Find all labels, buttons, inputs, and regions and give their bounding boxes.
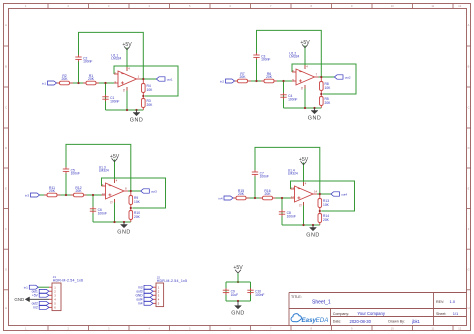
svg-text:out2: out2 — [345, 75, 351, 79]
svg-text:LM324: LM324 — [289, 54, 299, 58]
svg-text:EDA: EDA — [316, 317, 329, 324]
svg-text:LM324: LM324 — [111, 56, 121, 60]
svg-text:20K: 20K — [88, 77, 95, 81]
svg-text:100nF: 100nF — [255, 293, 264, 297]
svg-text:Easy: Easy — [302, 317, 317, 324]
svg-text:in3: in3 — [25, 193, 29, 197]
svg-text:in2: in2 — [34, 306, 38, 310]
svg-text:in4: in4 — [218, 196, 222, 200]
svg-text:100nF: 100nF — [71, 172, 80, 176]
svg-text:C: C — [5, 106, 7, 110]
svg-text:B: B — [5, 65, 7, 69]
svg-text:100nF: 100nF — [261, 58, 270, 62]
svg-text:GND: GND — [117, 230, 130, 236]
svg-text:D: D — [468, 146, 470, 150]
svg-text:H: H — [468, 306, 470, 310]
svg-text:A: A — [5, 23, 7, 27]
svg-text:in2: in2 — [220, 79, 224, 83]
svg-text:Sheet_1: Sheet_1 — [312, 300, 331, 306]
svg-text:20K: 20K — [75, 189, 82, 193]
svg-text:GND: GND — [231, 311, 244, 317]
svg-text:10K: 10K — [147, 88, 154, 92]
svg-text:G: G — [5, 268, 7, 272]
svg-text:Your Company: Your Company — [357, 311, 385, 316]
svg-text:20K: 20K — [49, 189, 56, 193]
svg-text:in1: in1 — [42, 81, 46, 85]
svg-text:HDR-M-2.54_1x5: HDR-M-2.54_1x5 — [157, 279, 187, 283]
svg-text:REV:: REV: — [436, 300, 444, 304]
svg-text:TITLE:: TITLE: — [291, 295, 302, 299]
svg-text:jbk1: jbk1 — [411, 319, 420, 324]
svg-text:Company:: Company: — [333, 312, 349, 316]
svg-text:20K: 20K — [323, 218, 330, 222]
svg-text:10K: 10K — [325, 86, 332, 90]
svg-text:100nF: 100nF — [260, 175, 269, 179]
svg-text:+5V: +5V — [233, 265, 243, 271]
svg-text:HDR-M-2.54_1x6: HDR-M-2.54_1x6 — [53, 278, 83, 282]
svg-text:10K: 10K — [134, 200, 141, 204]
svg-text:100nF: 100nF — [110, 100, 119, 104]
svg-text:in4: in4 — [138, 302, 142, 306]
svg-text:Sheet:: Sheet: — [436, 312, 446, 316]
svg-text:2020-08-30: 2020-08-30 — [350, 319, 372, 324]
svg-text:+5V: +5V — [110, 154, 120, 160]
svg-text:B: B — [468, 65, 470, 69]
svg-text:out3: out3 — [151, 189, 157, 193]
svg-text:20K: 20K — [134, 215, 141, 219]
svg-text:Drawn By:: Drawn By: — [388, 320, 405, 324]
svg-text:1/1: 1/1 — [453, 311, 459, 316]
svg-text:+5V: +5V — [299, 157, 309, 163]
svg-text:20K: 20K — [264, 192, 271, 196]
svg-text:1.0: 1.0 — [450, 299, 456, 304]
svg-text:20K: 20K — [266, 75, 273, 79]
svg-text:E: E — [468, 186, 470, 190]
svg-text:Date:: Date: — [333, 320, 342, 324]
svg-text:A: A — [468, 23, 470, 27]
svg-text:100nF: 100nF — [287, 215, 296, 219]
svg-text:GND: GND — [14, 297, 24, 302]
svg-text:20K: 20K — [61, 77, 68, 81]
svg-text:10uF: 10uF — [231, 293, 239, 297]
svg-text:LM324: LM324 — [99, 168, 109, 172]
svg-text:+5V: +5V — [122, 42, 132, 48]
svg-text:GND: GND — [308, 116, 321, 122]
svg-text:H: H — [5, 306, 7, 310]
svg-text:100nF: 100nF — [288, 98, 297, 102]
svg-text:+5V: +5V — [32, 294, 39, 298]
svg-text:C: C — [468, 106, 470, 110]
svg-text:20K: 20K — [239, 75, 246, 79]
svg-text:10K: 10K — [323, 203, 330, 207]
svg-text:LM324: LM324 — [288, 171, 298, 175]
svg-text:E: E — [5, 186, 7, 190]
svg-text:100nF: 100nF — [83, 60, 92, 64]
svg-text:20K: 20K — [147, 103, 154, 107]
svg-text:100nF: 100nF — [98, 212, 107, 216]
svg-text:out4: out4 — [341, 192, 347, 196]
svg-text:out1: out1 — [167, 77, 173, 81]
svg-text:GND: GND — [130, 118, 143, 124]
svg-text:D: D — [5, 146, 7, 150]
svg-text:in1: in1 — [24, 286, 28, 290]
svg-text:20K: 20K — [238, 192, 245, 196]
svg-text:GND: GND — [306, 233, 319, 239]
svg-text:G: G — [467, 268, 469, 272]
svg-text:20K: 20K — [325, 101, 332, 105]
svg-text:+5V: +5V — [300, 40, 310, 46]
